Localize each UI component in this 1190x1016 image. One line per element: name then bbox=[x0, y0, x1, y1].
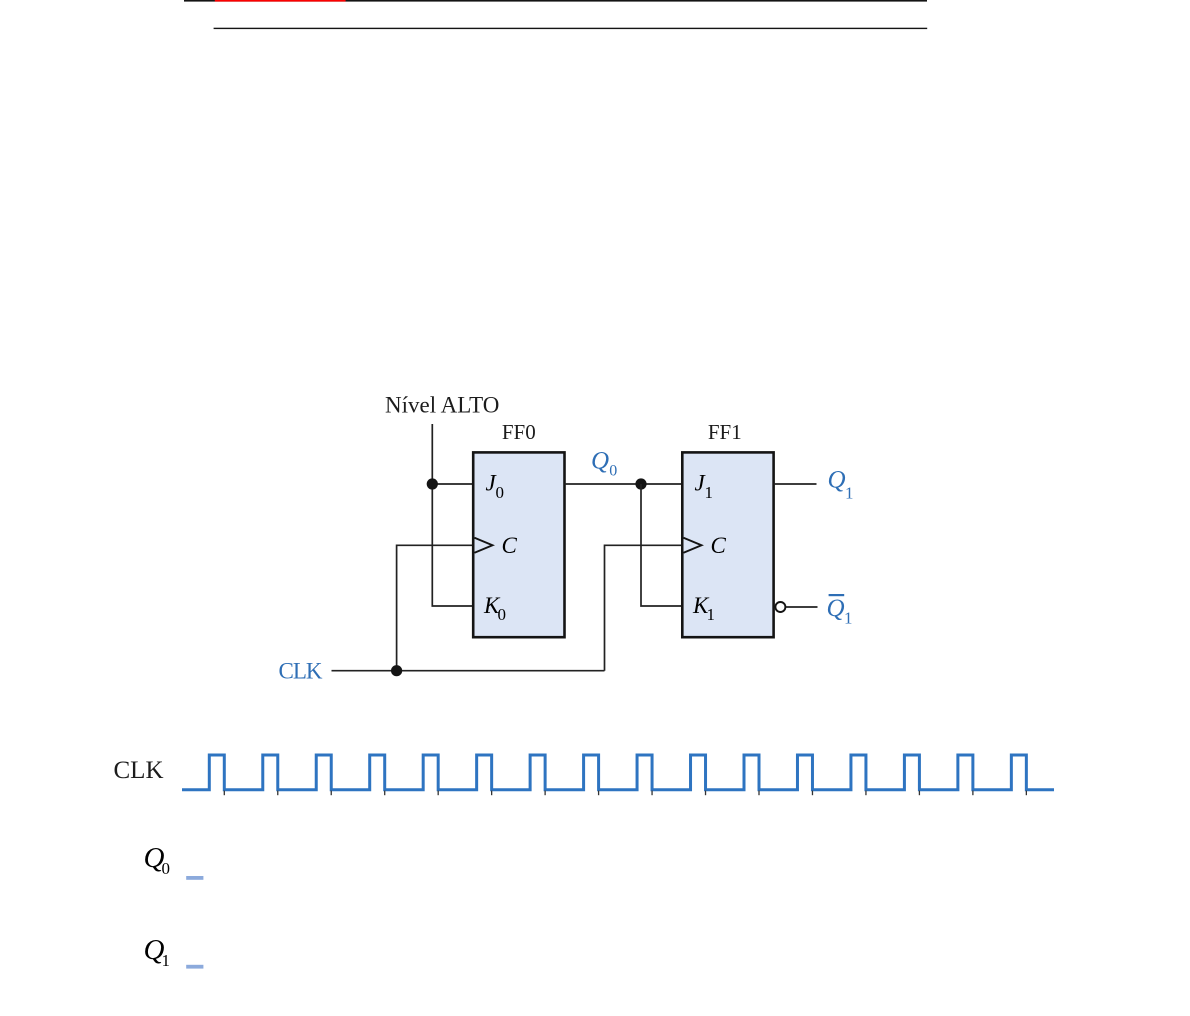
page header rule (second thin rule) bbox=[214, 28, 928, 29]
tick marks under CLK waveform bbox=[224, 791, 1026, 796]
svg-text:1: 1 bbox=[845, 484, 854, 503]
bubble: inverted output of FF1 bbox=[775, 602, 785, 612]
svg-text:Q: Q bbox=[828, 467, 846, 494]
svg-text:C: C bbox=[711, 533, 727, 558]
wire: Q0 down to K1 bbox=[641, 484, 682, 606]
svg-text:1: 1 bbox=[844, 609, 853, 628]
svg-text:1: 1 bbox=[707, 605, 716, 624]
svg-text:CLK: CLK bbox=[279, 659, 323, 684]
svg-text:Q: Q bbox=[591, 448, 609, 475]
wire: Q1 output bbox=[774, 483, 817, 485]
svg-text:0: 0 bbox=[498, 605, 507, 624]
clock input chevron FF1 bbox=[684, 538, 702, 553]
page header rule (top, black part) bbox=[184, 0, 927, 2]
flip-flop FF0 (body) bbox=[473, 452, 564, 637]
node: junction dot on CLK bus bbox=[391, 665, 402, 676]
svg-text:1: 1 bbox=[705, 483, 714, 502]
svg-text:0: 0 bbox=[162, 859, 171, 878]
svg-text:C: C bbox=[502, 533, 518, 558]
flip-flop FF1 (body) bbox=[682, 452, 773, 637]
svg-text:FF1: FF1 bbox=[708, 420, 742, 444]
svg-text:0: 0 bbox=[609, 463, 617, 480]
waveform: CLK clock pulses bbox=[182, 755, 1054, 790]
wire: CLK riser to FF0 clock input bbox=[397, 545, 473, 670]
svg-text:1: 1 bbox=[162, 951, 171, 970]
waveform stub: Q1 low level bbox=[186, 965, 203, 969]
svg-text:Nível ALTO: Nível ALTO bbox=[385, 393, 499, 418]
page header rule (red segment) bbox=[215, 0, 346, 2]
wire: CLK bus bbox=[332, 670, 605, 672]
svg-text:0: 0 bbox=[496, 483, 505, 502]
wire: HIGH level down to J0 and K0 bbox=[432, 424, 473, 606]
node: junction dot at J0 bbox=[427, 478, 438, 489]
wire: J0 input stub bbox=[432, 483, 473, 485]
node: junction dot on Q0 bbox=[635, 478, 646, 489]
svg-text:Q: Q bbox=[827, 595, 845, 622]
wire: Q0 from FF0 to J1 bbox=[565, 483, 683, 485]
wire: Q1-bar output bbox=[786, 606, 818, 608]
clock input chevron FF0 bbox=[475, 538, 493, 553]
waveform stub: Q0 low level bbox=[186, 876, 203, 880]
svg-text:FF0: FF0 bbox=[502, 420, 536, 444]
wire: CLK riser to FF1 clock input bbox=[605, 545, 683, 670]
svg-text:CLK: CLK bbox=[114, 757, 164, 784]
